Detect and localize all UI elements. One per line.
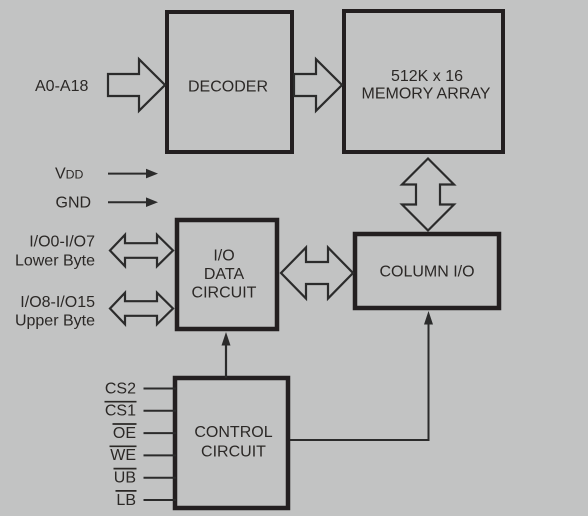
block I/O DATA CIRCUIT [177, 220, 277, 329]
label WE (overline) [110, 446, 137, 464]
wire LB [144, 499, 177, 501]
svg-text:Lower Byte: Lower Byte [15, 253, 95, 270]
svg-text:DECODER: DECODER [188, 79, 268, 96]
block 512K x 16 MEMORY ARRAY [344, 11, 503, 152]
svg-text:CIRCUIT: CIRCUIT [192, 285, 257, 302]
svg-text:OE: OE [113, 425, 136, 442]
double arrow I/O DATA CIRCUIT to COLUMN I/O [281, 248, 353, 299]
wire CS2 [144, 388, 177, 390]
svg-text:I/O0-I/O7: I/O0-I/O7 [29, 234, 95, 251]
arrow GND [108, 197, 158, 207]
double arrow MEMORY ARRAY to COLUMN I/O (vertical) [402, 159, 454, 231]
block arrow DECODER to MEMORY ARRAY [294, 59, 342, 111]
block CONTROL CIRCUIT [175, 378, 288, 508]
wire UB [144, 477, 177, 479]
double arrow lower byte [110, 235, 173, 267]
block arrow A0-A18 to DECODER [108, 59, 165, 111]
svg-text:512K x 16: 512K x 16 [391, 68, 463, 85]
wire CS1 [144, 410, 177, 412]
svg-text:I/O: I/O [213, 248, 234, 265]
label UB (overline) [114, 469, 137, 487]
svg-text:CS2: CS2 [105, 380, 136, 397]
block COLUMN I/O [355, 234, 499, 308]
wire WE [144, 454, 177, 456]
svg-text:GND: GND [56, 195, 92, 212]
double arrow upper byte [110, 293, 173, 325]
wire OE [144, 432, 177, 434]
svg-text:LB: LB [116, 492, 136, 509]
svg-text:CIRCUIT: CIRCUIT [201, 444, 266, 461]
svg-text:DATA: DATA [204, 266, 245, 283]
wire CONTROL CIRCUIT to COLUMN I/O [290, 321, 429, 440]
arrowhead into COLUMN I/O [424, 311, 433, 325]
label CS1 (overline) [105, 402, 137, 420]
arrow VDD [108, 169, 158, 179]
svg-text:CONTROL: CONTROL [194, 424, 272, 441]
svg-text:COLUMN I/O: COLUMN I/O [379, 264, 474, 281]
svg-text:VDD: VDD [55, 165, 84, 182]
svg-text:CS1: CS1 [105, 403, 136, 420]
label OE (overline) [113, 424, 137, 442]
label I/O0-I/O7 Lower Byte [15, 234, 95, 270]
svg-text:Upper Byte: Upper Byte [15, 312, 95, 329]
label I/O8-I/O15 Upper Byte [15, 294, 95, 329]
svg-text:I/O8-I/O15: I/O8-I/O15 [20, 294, 95, 311]
svg-text:WE: WE [110, 447, 136, 464]
block DECODER [167, 12, 292, 152]
svg-text:A0-A18: A0-A18 [35, 78, 88, 95]
svg-text:MEMORY ARRAY: MEMORY ARRAY [362, 86, 491, 103]
label LB (overline) [116, 491, 137, 509]
arrow CONTROL CIRCUIT to I/O DATA CIRCUIT [222, 332, 231, 378]
svg-text:UB: UB [114, 470, 136, 487]
